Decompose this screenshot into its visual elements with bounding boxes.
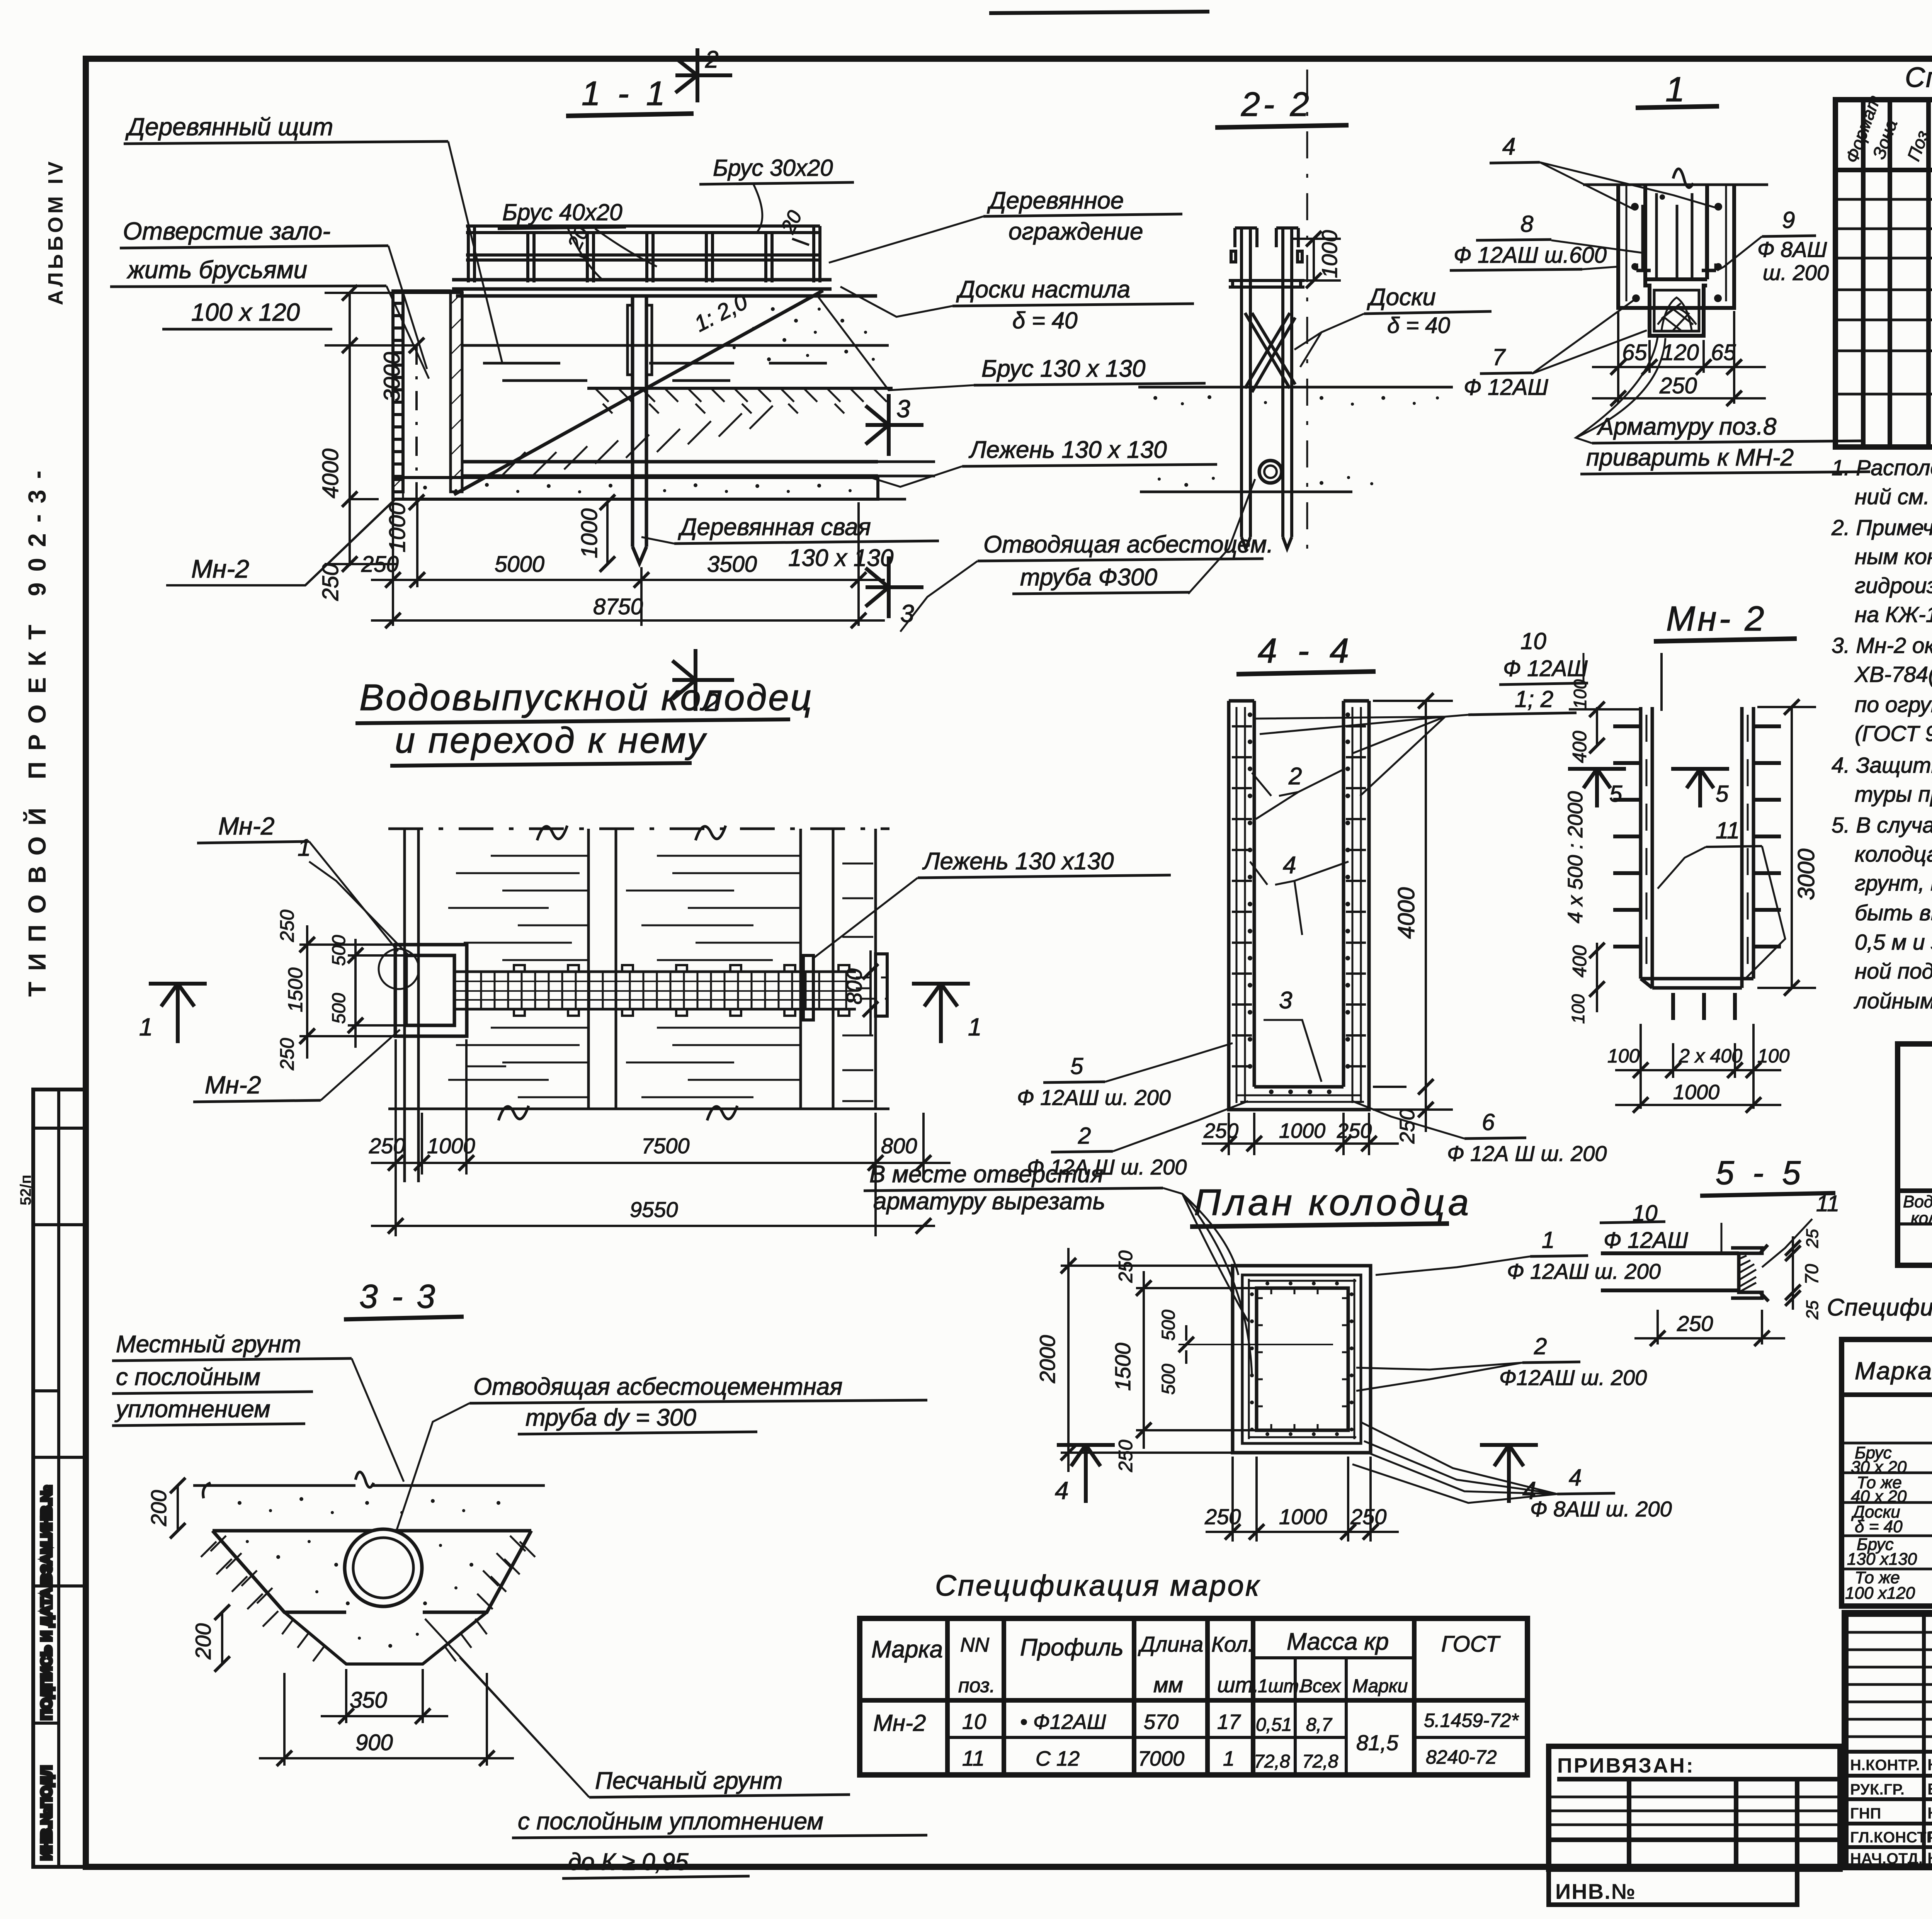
svg-text:жить брусьями: жить брусьями	[126, 256, 307, 284]
svg-text:7500: 7500	[641, 1134, 690, 1158]
svg-text:Лежень 130 х130: Лежень 130 х130	[922, 848, 1114, 875]
svg-text:70: 70	[1802, 1264, 1822, 1285]
bottom dims 250/1000/7500/800 and 9550	[371, 1039, 951, 1236]
horizontal tick marks on walls	[1232, 726, 1366, 1066]
U walls tall	[1229, 701, 1369, 1110]
pipe circle in 2-2	[1259, 461, 1282, 483]
lezhen beam (horizontal)	[462, 462, 878, 476]
pile depth dim 1000	[600, 495, 615, 572]
dims right 25/70/25	[1766, 1236, 1808, 1310]
svg-text:25: 25	[1803, 1300, 1822, 1320]
svg-text:Ф 12АШ ш.600: Ф 12АШ ш.600	[1454, 243, 1607, 268]
svg-text:4: 4	[1502, 133, 1515, 160]
svg-text:7: 7	[1492, 344, 1506, 370]
svg-text:2: 2	[1078, 1123, 1091, 1149]
tick marks inside walls	[1257, 1288, 1348, 1430]
section 4 marks left and right	[1057, 1445, 1115, 1503]
svg-text:2- 2: 2- 2	[1241, 85, 1312, 123]
section mark 1 left	[149, 984, 207, 1043]
svg-text:В месте отверстия: В месте отверстия	[869, 1161, 1104, 1188]
svg-text:1000: 1000	[427, 1134, 475, 1158]
svg-text:на КЖ-1.: на КЖ-1.	[1855, 602, 1932, 627]
svg-text:ГОСТ: ГОСТ	[1441, 1632, 1501, 1657]
svg-text:65: 65	[1711, 340, 1736, 365]
svg-text:800: 800	[842, 969, 866, 1005]
svg-text:2 х 400: 2 х 400	[1679, 1045, 1742, 1067]
svg-text:3500: 3500	[707, 552, 757, 577]
svg-text:250: 250	[1204, 1504, 1241, 1529]
railing posts	[468, 226, 820, 282]
svg-text:5.1459-72*: 5.1459-72*	[1424, 1710, 1519, 1731]
svg-text:130 х130: 130 х130	[1847, 1550, 1917, 1569]
svg-text:Деревянное: Деревянное	[987, 187, 1124, 214]
svg-text:ПРОНИН: ПРОНИН	[1927, 1828, 1932, 1846]
svg-text:0,5 м и заменён песча-: 0,5 м и заменён песча-	[1855, 930, 1932, 955]
svg-text:Ф 12АШ: Ф 12АШ	[1464, 375, 1548, 400]
svg-text:КНЯГИНИЧЕВ: КНЯГИНИЧЕВ	[1927, 1804, 1932, 1822]
svg-text:250: 250	[1659, 373, 1697, 398]
svg-text:ний см. на листах КГ.: ний см. на листах КГ.	[1855, 484, 1932, 509]
svg-text:11: 11	[1816, 1191, 1839, 1216]
svg-text:800: 800	[881, 1134, 917, 1158]
svg-text:570: 570	[1144, 1710, 1179, 1734]
section marks 5	[1568, 769, 1626, 807]
upper soil band (trapezoid)	[213, 1529, 531, 1533]
pipe circle	[345, 1529, 422, 1606]
dims 65 120 65 / 250	[1592, 311, 1766, 406]
svg-text:500: 500	[329, 993, 349, 1024]
dims 200/200 left	[166, 1478, 230, 1672]
dim 250 bottom	[1634, 1310, 1785, 1346]
svg-text:Мн-2: Мн-2	[218, 812, 274, 840]
ground line with break	[1583, 169, 1768, 188]
svg-text:Мн- 2: Мн- 2	[1666, 600, 1767, 638]
svg-text:100: 100	[1757, 1045, 1790, 1067]
svg-text:5000: 5000	[495, 552, 544, 577]
svg-text:4: 4	[1569, 1465, 1582, 1491]
svg-text:Мн-2: Мн-2	[191, 554, 249, 583]
svg-text:с послойным: с послойным	[116, 1364, 260, 1390]
left dims of plan	[1061, 1248, 1333, 1472]
svg-text:72,8: 72,8	[1302, 1751, 1338, 1772]
svg-text:Ф 8АШ: Ф 8АШ	[1757, 237, 1827, 262]
svg-text:4 - 4: 4 - 4	[1258, 632, 1354, 670]
svg-text:250: 250	[1203, 1119, 1238, 1142]
bottom dims 250/1000/250 of 4-4	[1202, 1113, 1399, 1155]
svg-text:Ф 12АШ ш. 200: Ф 12АШ ш. 200	[1507, 1259, 1661, 1283]
svg-text:1. Расположение сооруже-: 1. Расположение сооруже-	[1832, 456, 1932, 480]
ground surface line with break	[193, 1472, 545, 1498]
svg-text:250: 250	[1115, 1440, 1136, 1472]
svg-text:Брус 30х20: Брус 30х20	[713, 155, 833, 181]
svg-text:5: 5	[1716, 781, 1729, 807]
svg-text:Спецификация элементов монол: Спецификация элементов монолитной констр…	[1905, 62, 1932, 93]
svg-text:500: 500	[1158, 1310, 1179, 1341]
svg-text:3: 3	[896, 395, 910, 423]
svg-text:быть вынут на глубину: быть вынут на глубину	[1855, 901, 1932, 925]
svg-text:ПРИВЯЗАН:: ПРИВЯЗАН:	[1557, 1754, 1695, 1777]
svg-text:250: 250	[1350, 1504, 1386, 1529]
svg-text:6: 6	[1482, 1109, 1495, 1135]
privyazan box	[1549, 1746, 1840, 1905]
railing top rail	[466, 226, 820, 260]
ground line + dotted band	[1138, 386, 1453, 389]
svg-text:колодца на глинистый: колодца на глинистый	[1855, 842, 1932, 867]
notes list 1-5	[1831, 456, 1932, 1013]
svg-text:250: 250	[361, 552, 399, 577]
svg-text:Лежень 130 х 130: Лежень 130 х 130	[968, 437, 1167, 463]
svg-text:КНЯГИНИЧЕВ: КНЯГИНИЧЕВ	[1927, 1756, 1932, 1774]
svg-text:туры принять 20мм.: туры принять 20мм.	[1855, 782, 1932, 807]
rebar tick dots along walls	[1248, 712, 1350, 1094]
svg-text:δ = 40: δ = 40	[1012, 308, 1077, 333]
base concrete band with dots	[393, 478, 878, 499]
svg-text:уплотнением: уплотнением	[114, 1396, 270, 1423]
svg-text:5 - 5: 5 - 5	[1716, 1154, 1805, 1192]
thin inner wall lines	[1626, 185, 1726, 301]
svg-text:5. В случае опирания: 5. В случае опирания	[1832, 813, 1932, 838]
svg-text:лойным уплотнением.: лойным уплотнением.	[1854, 989, 1932, 1013]
svg-text:ГЛ.КОНСТР: ГЛ.КОНСТР	[1850, 1829, 1932, 1846]
svg-text:500: 500	[329, 935, 349, 966]
svg-text:ИНВ.№ПОДЛ: ИНВ.№ПОДЛ	[39, 1766, 55, 1860]
ground line with hatches	[587, 388, 893, 413]
break squiggles top	[498, 826, 737, 1120]
svg-text:65: 65	[1622, 340, 1647, 365]
svg-text:Ф 8АШ ш. 200: Ф 8АШ ш. 200	[1530, 1497, 1672, 1521]
bottom dimension chain 250/5000/3500	[371, 502, 885, 628]
svg-text:ВЗАМ.ИНВ.№: ВЗАМ.ИНВ.№	[39, 1485, 55, 1584]
svg-text:(ГОСТ 9355-60).: (ГОСТ 9355-60).	[1855, 721, 1932, 746]
central pile	[633, 296, 646, 563]
well box in plan	[395, 945, 467, 1036]
svg-text:Водовыпускн.: Водовыпускн.	[1903, 1192, 1932, 1211]
svg-text:Ф 12АШ: Ф 12АШ	[1503, 656, 1588, 681]
svg-text:900: 900	[355, 1730, 393, 1755]
svg-text:1: 1	[1542, 1227, 1554, 1253]
svg-text:1; 2: 1; 2	[1515, 686, 1553, 712]
svg-text:1000: 1000	[1317, 230, 1342, 278]
svg-text:Мн-2: Мн-2	[873, 1710, 926, 1736]
center dash line	[1306, 70, 1308, 564]
svg-text:Кол.: Кол.	[1211, 1632, 1254, 1656]
svg-text:1: 1	[1665, 70, 1685, 109]
svg-text:2: 2	[705, 46, 718, 73]
svg-text:Профиль: Профиль	[1020, 1634, 1124, 1661]
X bracing	[1245, 313, 1295, 392]
svg-text:200: 200	[146, 1490, 171, 1526]
svg-text:1: 1	[298, 835, 311, 861]
svg-text:4: 4	[1283, 852, 1296, 879]
svg-text:1000: 1000	[1279, 1119, 1325, 1142]
pile cap plate	[628, 305, 633, 375]
svg-text:Арматуру поз.8: Арматуру поз.8	[1596, 413, 1777, 440]
svg-text:7000: 7000	[1138, 1747, 1184, 1770]
svg-text:ограждение: ограждение	[1009, 218, 1143, 245]
inner rebar verticals	[1643, 193, 1706, 277]
svg-text:10: 10	[1520, 628, 1546, 654]
U channel: outer box	[1618, 185, 1734, 308]
svg-text:Ф 12АШ: Ф 12АШ	[1604, 1228, 1688, 1253]
svg-text:и переход к нему: и переход к нему	[395, 720, 707, 760]
svg-text:Всех: Всех	[1300, 1676, 1342, 1696]
svg-text:250: 250	[1396, 1109, 1419, 1144]
svg-text:350: 350	[350, 1688, 387, 1713]
svg-text:Н.КОНТР.: Н.КОНТР.	[1850, 1757, 1920, 1774]
svg-text:11: 11	[962, 1746, 985, 1770]
svg-text:1: 1	[968, 1013, 982, 1041]
table: specification of marks (bottom middle)	[860, 1569, 1527, 1775]
svg-text:2. Примечания по деревян-: 2. Примечания по деревян-	[1831, 515, 1932, 540]
svg-text:Длина: Длина	[1138, 1632, 1203, 1656]
left dim chain	[1569, 653, 1662, 1012]
svg-text:2: 2	[1534, 1333, 1547, 1359]
water hatch lines upper	[448, 856, 873, 960]
svg-text:130 х 130: 130 х 130	[788, 545, 893, 571]
svg-text:250: 250	[369, 1134, 405, 1158]
svg-text:Водовыпускной колодец: Водовыпускной колодец	[359, 677, 813, 718]
svg-text:по огрунтовке ХС-010: по огрунтовке ХС-010	[1855, 692, 1932, 717]
table: specification of marking-scheme elements	[1827, 1294, 1932, 1606]
anchor hooks	[1636, 263, 1716, 270]
outer boundary verticals	[388, 829, 889, 1182]
table: specification of monolithic elements (top right)	[1835, 62, 1932, 447]
svg-text:КРАСАВИН: КРАСАВИН	[1927, 1849, 1932, 1867]
svg-text:2000: 2000	[1035, 1335, 1060, 1384]
water hatch lines lower	[448, 1028, 873, 1101]
svg-text:250: 250	[1337, 1119, 1372, 1142]
svg-text:NN: NN	[960, 1634, 990, 1656]
svg-text:Деревянная свая: Деревянная свая	[678, 514, 871, 541]
section mark 3 right bottom	[866, 556, 923, 618]
svg-text:АЛЬБОМ IV: АЛЬБОМ IV	[44, 158, 67, 305]
soil dots in band	[238, 1497, 500, 1648]
svg-text:Брус 130 х 130: Брус 130 х 130	[981, 355, 1145, 382]
small circle detail on well	[379, 949, 419, 989]
section mark 2 bottom	[672, 649, 734, 711]
section mark 1 right	[912, 984, 970, 1043]
svg-text:ным конструкциям и: ным конструкциям и	[1855, 544, 1932, 569]
svg-text:ной подушкой с пос-: ной подушкой с пос-	[1855, 959, 1932, 984]
svg-text:1000: 1000	[385, 503, 410, 552]
svg-text:1000: 1000	[1279, 1504, 1327, 1529]
title block (stamp)	[1845, 1613, 1932, 1916]
inner sand trapezoid	[284, 1612, 487, 1664]
water line	[462, 345, 889, 381]
svg-text:17: 17	[1217, 1710, 1241, 1734]
svg-text:81,5: 81,5	[1356, 1730, 1399, 1755]
svg-text:Ф 12А Ш ш. 200: Ф 12А Ш ш. 200	[1447, 1141, 1607, 1166]
svg-text:С 12: С 12	[1036, 1747, 1080, 1770]
svg-text:9550: 9550	[630, 1197, 678, 1222]
svg-text:Отверстие зало-: Отверстие зало-	[123, 217, 330, 245]
svg-text:2: 2	[1288, 763, 1302, 790]
svg-text:5: 5	[1070, 1053, 1083, 1079]
svg-text:1: 1	[1223, 1747, 1235, 1770]
svg-text:250: 250	[276, 1038, 298, 1071]
svg-text:ПОДПИСЬ И ДАТА: ПОДПИСЬ И ДАТА	[39, 1588, 55, 1720]
slope line 1:2.0	[454, 291, 823, 495]
svg-text:шт.: шт.	[1217, 1673, 1259, 1697]
svg-text:Спецификация марок: Спецификация марок	[935, 1569, 1261, 1602]
svg-text:1000: 1000	[577, 508, 602, 558]
svg-text:3: 3	[1279, 987, 1292, 1014]
dim 1000	[1292, 231, 1341, 288]
channel profile	[1731, 1245, 1769, 1301]
svg-text:10: 10	[962, 1709, 986, 1734]
horizontal anchor bars left plate	[1613, 726, 1781, 1020]
svg-text:Марка: Марка	[871, 1636, 943, 1663]
svg-text:с послойным уплотнением: с послойным уплотнением	[518, 1808, 823, 1835]
bottom dims 250 1000 250	[1206, 1457, 1399, 1542]
dim 800 right	[863, 950, 923, 1035]
svg-text:1 - 1: 1 - 1	[582, 74, 669, 112]
bottom dims 100 2x400 100 / 1000	[1615, 1024, 1781, 1113]
lower dotted band and line	[1158, 476, 1373, 487]
svg-text:4 х 500 : 2000: 4 х 500 : 2000	[1564, 791, 1587, 923]
svg-text:БЕЛОВА: БЕЛОВА	[1927, 1780, 1932, 1798]
rebar dots	[1631, 194, 1722, 302]
channel with grid	[454, 972, 889, 1009]
svg-text:ш. 200: ш. 200	[1763, 260, 1829, 285]
deck beam	[1229, 280, 1304, 287]
svg-text:100: 100	[1570, 679, 1590, 709]
svg-text:11: 11	[1716, 818, 1740, 843]
svg-text:Марка: Марка	[1855, 1357, 1932, 1385]
left stamp column	[33, 1090, 87, 1867]
svg-text:Брус 40х20: Брус 40х20	[502, 199, 622, 225]
hillside hatch under slope	[502, 406, 773, 475]
svg-text:грунт, последний должен: грунт, последний должен	[1855, 871, 1932, 896]
svg-text:Мн-2: Мн-2	[205, 1071, 261, 1099]
slopes hatching left/right	[201, 1536, 535, 1627]
cleat marks on channel	[514, 965, 849, 1016]
svg-text:• Ф12АШ: • Ф12АШ	[1020, 1710, 1106, 1734]
rebar dots around walls	[1250, 1282, 1354, 1436]
svg-text:8: 8	[1520, 211, 1534, 237]
svg-text:ХВ-784( ГОСТ 7313-75*): ХВ-784( ГОСТ 7313-75*)	[1854, 662, 1932, 687]
svg-text:9: 9	[1782, 207, 1795, 233]
step profile around embedded element	[1645, 279, 1707, 336]
svg-text:400: 400	[1569, 945, 1590, 977]
svg-text:5: 5	[1609, 781, 1622, 807]
svg-text:1500: 1500	[284, 967, 307, 1012]
svg-text:1: 1	[139, 1013, 153, 1041]
svg-text:0,51: 0,51	[1256, 1715, 1292, 1735]
svg-text:1шт.: 1шт.	[1258, 1676, 1304, 1696]
svg-text:Местный грунт: Местный грунт	[116, 1331, 301, 1358]
vertical plates	[1641, 707, 1753, 988]
svg-text:100 х 120: 100 х 120	[191, 298, 300, 326]
svg-text:250: 250	[1115, 1250, 1136, 1283]
svg-text:НАЧ.ОТД.: НАЧ.ОТД.	[1850, 1850, 1923, 1867]
svg-text:8240-72: 8240-72	[1426, 1746, 1497, 1768]
svg-text:100 х120: 100 х120	[1845, 1584, 1915, 1603]
svg-text:4000: 4000	[1393, 887, 1419, 939]
outlet pipe lines to right	[878, 462, 935, 499]
channel vertical ticks	[468, 972, 846, 1009]
left dims of plan	[299, 925, 406, 1059]
svg-text:гидроизоляции см.: гидроизоляции см.	[1855, 573, 1932, 598]
svg-text:1500: 1500	[1111, 1343, 1135, 1391]
svg-text:δ = 40: δ = 40	[1387, 313, 1450, 338]
left dimension chain	[325, 285, 464, 572]
svg-text:4: 4	[1055, 1477, 1069, 1504]
inner rebar lines	[1248, 1279, 1356, 1439]
svg-text:3000: 3000	[1793, 849, 1819, 900]
svg-text:25: 25	[1803, 1229, 1822, 1248]
embedded element Mn-2 mesh box	[1654, 290, 1699, 331]
svg-text:Деревянный щит: Деревянный щит	[125, 113, 333, 141]
posts	[1231, 228, 1302, 549]
svg-text:3000: 3000	[379, 352, 405, 402]
svg-text:3 - 3: 3 - 3	[359, 1278, 437, 1315]
left concrete wall hatched	[451, 291, 462, 492]
svg-text:Отводящая асбестоцементная: Отводящая асбестоцементная	[473, 1373, 842, 1400]
svg-text:РУК.ГР.: РУК.ГР.	[1850, 1781, 1905, 1798]
svg-text:200: 200	[191, 1623, 215, 1660]
svg-text:400: 400	[1569, 731, 1590, 763]
svg-text:250: 250	[276, 909, 298, 942]
svg-text:труба Ф300: труба Ф300	[1020, 564, 1157, 591]
svg-text:труба dу = 300: труба dу = 300	[526, 1404, 696, 1431]
svg-text:поз.: поз.	[958, 1674, 995, 1697]
svg-text:4000: 4000	[318, 449, 343, 498]
svg-text:мм: мм	[1153, 1673, 1183, 1697]
dashed inner lines	[1646, 715, 1648, 974]
left timber shield wall	[393, 291, 451, 492]
svg-text:План колодца: План колодца	[1194, 1182, 1472, 1223]
svg-text:1000: 1000	[1673, 1081, 1719, 1104]
lezhen plates	[803, 955, 813, 1020]
svg-text:ГНП: ГНП	[1850, 1805, 1881, 1822]
svg-text:до К ≥ 0,95: до К ≥ 0,95	[568, 1849, 689, 1875]
section mark 2 (top)	[675, 48, 732, 102]
well plan rectangles	[1233, 1266, 1371, 1453]
svg-text:Ф12АШ ш. 200: Ф12АШ ш. 200	[1499, 1365, 1647, 1390]
svg-text:арматуру вырезать: арматуру вырезать	[873, 1188, 1105, 1215]
svg-text:Песчаный грунт: Песчаный грунт	[595, 1768, 782, 1794]
section mark 3 right top	[866, 394, 923, 456]
svg-text:500: 500	[1158, 1364, 1179, 1395]
svg-text:Масса кр: Масса кр	[1287, 1628, 1389, 1655]
svg-text:250: 250	[1677, 1311, 1713, 1336]
table: steel selection per element	[1898, 999, 1932, 1265]
rebar lines left	[1601, 1253, 1739, 1290]
svg-text:Ф 12АШ ш. 200: Ф 12АШ ш. 200	[1017, 1085, 1171, 1110]
soil dots above slope	[733, 307, 875, 361]
right dim 3000	[1757, 699, 1816, 996]
svg-text:100: 100	[1568, 994, 1588, 1024]
svg-text:колодец: колодец	[1911, 1209, 1932, 1228]
svg-text:8750: 8750	[593, 594, 643, 619]
svg-text:Доски: Доски	[1367, 284, 1436, 311]
svg-text:ИНВ.№: ИНВ.№	[1555, 1879, 1636, 1904]
svg-text:4. Защитный слой арма-: 4. Защитный слой арма-	[1832, 753, 1932, 778]
svg-text:100: 100	[1607, 1045, 1640, 1067]
wall base corner	[393, 479, 462, 499]
dims 350 / 900 bottom	[259, 1669, 514, 1766]
deck planks	[452, 280, 877, 296]
svg-text:δ = 40: δ = 40	[1855, 1517, 1903, 1536]
svg-text:ТИПОВОЙ ПРОЕКТ 902-3-: ТИПОВОЙ ПРОЕКТ 902-3-	[23, 460, 51, 997]
inner rebar double lines in walls	[1236, 707, 1364, 1103]
svg-text:Спецификация элементов к ма: Спецификация элементов к маркировочным с…	[1827, 1294, 1932, 1321]
left margin vertical captions	[17, 158, 67, 1205]
right dim 4000 / 250	[1373, 693, 1453, 1132]
svg-text:Марки: Марки	[1352, 1676, 1408, 1696]
svg-text:3. Мн-2 окрасить лаком: 3. Мн-2 окрасить лаком	[1832, 633, 1932, 658]
